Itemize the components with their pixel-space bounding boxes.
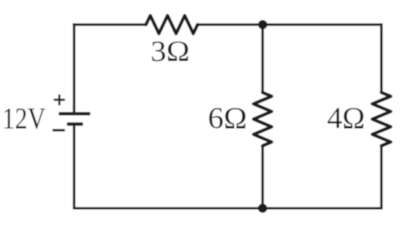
resistor R2 (6 ohm) zigzag: [254, 93, 272, 146]
node A junction dot (top): [258, 20, 267, 29]
wire: middle branch lower lead: [261, 146, 264, 208]
wire: bottom from left corner to right corner: [74, 207, 381, 210]
battery V1 negative plate (short): [67, 122, 83, 125]
minus sign of battery: [53, 129, 65, 132]
svg-text:6Ω: 6Ω: [208, 100, 247, 135]
svg-text:4Ω: 4Ω: [327, 100, 365, 135]
wire: left side lower (battery bottom lead): [73, 124, 76, 209]
plus sign of battery: [54, 95, 65, 106]
node B junction dot (bottom): [258, 204, 267, 213]
battery V1 positive plate (long): [59, 112, 90, 115]
wire: top-left segment from corner to resistor R1: [74, 23, 146, 24]
resistor R1 (3 ohm) zigzag: [146, 16, 198, 34]
wire: right side upper lead: [380, 23, 383, 92]
svg-text:3Ω: 3Ω: [151, 35, 190, 68]
wire: right side lower lead: [380, 146, 383, 210]
wire: top segment from resistor R1 to node A and top-right corner: [198, 23, 382, 26]
wire: middle branch upper lead: [261, 25, 264, 93]
wire: left side upper (battery top lead): [73, 23, 76, 112]
svg-text:12V: 12V: [2, 100, 46, 135]
resistor R3 (4 ohm) zigzag: [372, 93, 390, 146]
